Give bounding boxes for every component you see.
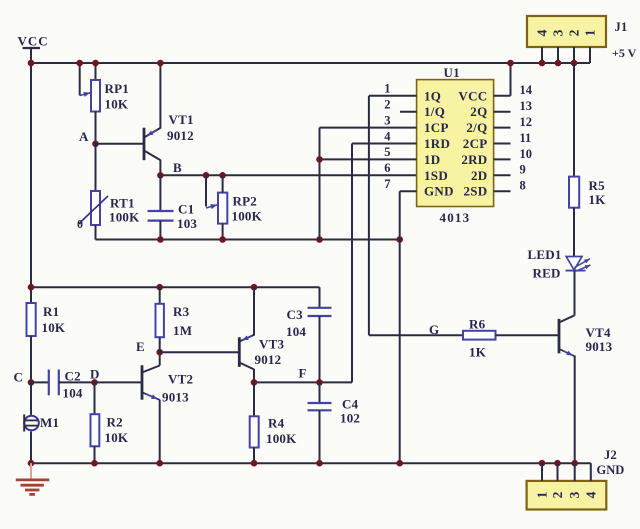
wire RP1 bottom to A [95,112,97,144]
svg-text:14: 14 [520,83,533,97]
wire R3 top [159,287,161,304]
IC U1 body [417,80,494,207]
resistor R1 [27,303,36,336]
svg-text:VT1: VT1 [169,112,194,127]
wire J1 pin 4 [541,47,543,63]
svg-text:C4: C4 [342,397,359,412]
svg-text:4: 4 [535,29,550,36]
svg-text:J2: J2 [604,448,617,462]
wire node B rail [160,174,416,176]
junction F at C3 [316,379,323,386]
transistor VT4 [559,315,575,356]
wire J2 pin 3 [574,463,576,481]
svg-text:R2: R2 [107,415,123,430]
svg-text:RP2: RP2 [233,194,257,209]
wire RP2 bottom [222,224,224,240]
wire E to VT3 base [160,351,240,353]
junction B at RP2 top [219,172,226,179]
svg-text:1Q: 1Q [424,88,441,103]
svg-text:1: 1 [583,29,598,36]
svg-text:1: 1 [384,82,390,96]
power VCC symbol [18,34,49,64]
svg-text:104: 104 [286,324,306,339]
wire pin1 drop to G [368,96,370,335]
wire D to VT2 base [95,381,143,383]
svg-text:C: C [14,370,24,385]
svg-text:2: 2 [384,98,390,112]
svg-text:2RD: 2RD [461,152,487,167]
transistor VT1 [144,128,160,161]
microphone M1 [24,415,39,432]
svg-text:2: 2 [567,29,582,36]
svg-text:R3: R3 [173,304,190,319]
junction pin3-pin5 [316,156,323,163]
junction RP1 top [92,60,99,67]
potentiometer RP2 [206,193,227,224]
svg-text:5: 5 [384,145,390,159]
wire U1 pin5 stub [320,158,417,160]
junction amp rail R3 [156,284,163,291]
svg-text:R6: R6 [469,317,486,332]
svg-text:6: 6 [384,161,390,175]
svg-text:100K: 100K [232,209,263,224]
wire R6 to VT4 base [496,334,560,336]
svg-text:3: 3 [567,491,582,498]
wire VT1 emitter up [159,63,161,129]
wire R5 to LED1 [573,208,575,257]
junction gnd J2 pin2 [554,460,561,467]
svg-text:GND: GND [424,184,454,199]
wire C4 bottom [319,410,321,463]
svg-text:1RD: 1RD [424,136,450,151]
svg-text:2D: 2D [471,168,488,183]
svg-text:13: 13 [520,99,533,113]
junction mid rail C1 [157,236,164,243]
svg-text:3: 3 [384,113,390,127]
wire RP1 wiper drop [79,63,81,96]
wire R1 bottom to C [30,336,32,382]
transistor VT3 [239,335,254,370]
wire VT4 emitter down [574,356,576,464]
svg-text:A: A [79,129,89,144]
junction node A [92,141,99,148]
wire top VCC rail [31,62,590,64]
wire C2 to D [59,381,95,383]
wire pin3 drop [319,128,321,240]
wire C3 bottom to F [319,316,321,382]
svg-text:F: F [299,366,307,381]
wire J1 pin 3 [557,47,559,63]
wire J2 pin 2 [557,463,559,481]
junction mid rail GND net [396,236,403,243]
junction VT1 emitter rail [157,60,164,67]
svg-text:VT2: VT2 [168,372,193,387]
capacitor C4 [308,403,332,410]
wire U1 pin3 stub [320,127,417,129]
wire B to C1 [159,175,161,211]
U1 right pin stub 8 [494,190,511,192]
svg-text:4: 4 [583,491,598,498]
svg-text:100K: 100K [109,210,140,225]
capacitor C2 [49,370,59,396]
junction gnd U1 [396,460,403,467]
svg-text:LED1: LED1 [528,247,562,262]
junction J1 pin2 [571,60,578,67]
wire VT1 collector down [159,160,161,176]
svg-text:10K: 10K [105,97,129,112]
wire VT1 base [96,143,145,145]
connector J1 body [527,16,606,47]
wire pin7 drop [399,191,401,463]
svg-text:R1: R1 [43,304,59,319]
svg-text:1M: 1M [173,323,192,338]
svg-text:10K: 10K [105,430,129,445]
svg-text:9013: 9013 [162,390,189,405]
wire C to M1 [30,382,32,414]
junction amp rail VT3 [251,284,258,291]
wire U1 pin1 stub [369,95,417,97]
svg-text:102: 102 [340,411,360,426]
wire RT1 bottom [95,225,97,240]
svg-text:RED: RED [533,266,561,281]
svg-text:U1: U1 [444,65,460,80]
wire M1 bottom [30,431,32,463]
junction gnd VT2 [156,460,163,467]
svg-text:9013: 9013 [586,339,613,354]
resistor R3 [156,304,164,337]
wire R4 top [253,382,255,416]
wire VT3 emitter up [253,287,255,335]
svg-text:GND: GND [597,463,625,477]
junction node C [28,379,35,386]
wire R5 top [573,63,575,177]
junction amp rail left [28,284,35,291]
svg-text:2SD: 2SD [463,184,487,199]
wire R2 top [94,382,96,414]
wire RP1 top [95,63,97,80]
wire VT2 collector up [159,352,161,365]
svg-text:θ: θ [77,219,83,231]
svg-text:1D: 1D [424,152,441,167]
wire bottom ground rail [31,462,591,464]
wire node F rail [254,381,352,383]
wire A to RT1 [95,144,97,191]
wire R3 bottom [159,337,161,352]
wire mid rail [96,239,400,241]
svg-text:4013: 4013 [440,210,471,225]
wire J1 pin 2 [573,47,575,63]
resistor R5 [569,177,579,208]
potentiometer RP1 [80,80,100,112]
svg-text:9012: 9012 [167,128,194,143]
wire G line [369,334,463,336]
ground symbol [16,463,50,494]
svg-text:B: B [173,160,182,175]
junction top rail VCC [28,60,35,67]
wire J2 pin 4 [590,463,592,481]
svg-text:C2: C2 [65,369,81,384]
transistor VT2 [142,365,160,400]
wire J2 pin 1 [541,463,543,481]
svg-text:E: E [136,339,145,354]
svg-text:R4: R4 [268,416,285,431]
svg-text:8: 8 [520,179,526,193]
svg-text:C1: C1 [178,202,194,217]
svg-text:1: 1 [535,491,550,498]
svg-text:12: 12 [520,115,533,129]
wire C1 bottom [159,221,161,240]
junction B at VT1 collector [157,172,164,179]
svg-text:104: 104 [63,386,83,401]
wire U1 pin7 stub [400,190,417,192]
wire F to C4 [319,382,321,403]
junction gnd left [28,460,35,467]
svg-text:VT4: VT4 [586,325,611,340]
svg-text:10K: 10K [42,320,66,335]
resistor R6 [463,331,496,340]
svg-text:1K: 1K [469,345,487,360]
LED LED1 [566,257,591,272]
wire pin4 drop to F [351,144,353,383]
svg-text:100K: 100K [266,431,297,446]
svg-text:VCC: VCC [458,88,487,103]
svg-text:VCC: VCC [18,34,49,49]
wire amp rail to C3 [319,287,321,308]
svg-text:+5 V: +5 V [612,46,637,60]
junction mid rail RP2 [219,236,226,243]
junction node E [156,349,163,356]
junction gnd C4 [316,460,323,467]
U1 right pin stub 9 [494,174,511,176]
wire VT3 collector down [253,369,255,382]
svg-text:1K: 1K [589,192,607,207]
junction gnd R2 [91,460,98,467]
resistor R2 [91,414,100,446]
svg-text:7: 7 [384,177,390,191]
wire U1 pin4 stub [352,143,417,145]
thermistor RT1 [79,191,108,225]
svg-text:2CP: 2CP [463,136,488,151]
wire U1 pin2 stub [400,111,417,113]
svg-text:3: 3 [551,29,566,36]
wire left VCC drop [30,63,32,303]
wire pin14 VCC riser [510,62,512,96]
capacitor C3 [308,308,332,316]
svg-text:2Q: 2Q [470,104,487,119]
U1 right pin stub 11 [494,143,511,145]
svg-text:RT1: RT1 [110,196,135,211]
svg-text:RP1: RP1 [105,81,129,96]
junction J1 pin4 [539,60,546,67]
svg-text:11: 11 [520,131,532,145]
svg-text:2/Q: 2/Q [466,120,487,135]
svg-text:R5: R5 [589,178,606,193]
connector J2 body [527,481,607,510]
junction gnd J2 pin3 [571,460,578,467]
wire R4 bottom [253,448,255,464]
svg-text:VT3: VT3 [259,337,284,352]
svg-text:4: 4 [384,129,391,143]
svg-text:C3: C3 [287,307,304,322]
wire VT2 emitter down [159,400,161,464]
junction B at RP2 wiper [203,172,210,179]
junction node D [91,379,98,386]
svg-text:9012: 9012 [255,352,282,367]
junction gnd R4 [251,460,258,467]
svg-text:2: 2 [550,491,565,498]
junction pin14 rail [507,60,514,67]
wire amp VCC rail [31,286,320,288]
wire J1 pin 1 [589,47,591,63]
svg-text:9: 9 [520,163,526,177]
svg-text:1SD: 1SD [424,168,448,183]
svg-text:10: 10 [520,147,533,161]
wire C to C2 [31,381,49,383]
U1 right pin stub 14 [494,95,511,97]
U1 right pin stub 13 [494,111,511,113]
svg-text:1CP: 1CP [424,120,449,135]
svg-text:1/Q: 1/Q [424,104,445,119]
U1 right pin stub 12 [494,127,511,129]
svg-text:103: 103 [177,216,197,231]
junction F at VT3 [251,379,258,386]
U1 right pin stub 10 [494,158,511,160]
junction gnd J2 pin1 [539,460,546,467]
wire R2 bottom [94,446,96,463]
junction RP1 wiper [76,60,83,67]
wire RP2 top [222,175,224,192]
capacitor C1 [148,211,174,221]
svg-text:J1: J1 [615,20,628,34]
junction J1 pin3 [555,60,562,67]
wire RP2 wiper drop [205,175,207,206]
wire LED1 to VT4 collector [574,271,576,316]
junction mid rail pin3-5 net [316,236,323,243]
svg-text:M1: M1 [40,415,59,430]
resistor R4 [250,416,259,447]
